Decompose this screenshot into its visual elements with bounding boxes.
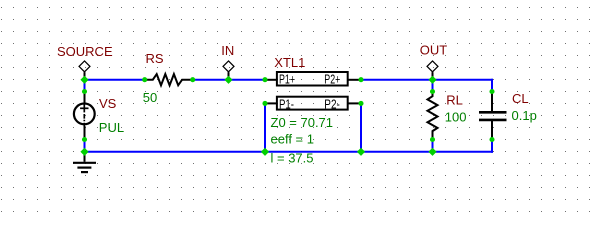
XTL1 upper body box P1+/P2+ xyxy=(277,72,348,86)
node XTL1 P1+ xyxy=(262,77,267,82)
node XTL1 P1- xyxy=(262,101,267,106)
svg-text:PUL: PUL xyxy=(99,120,124,135)
port IN xyxy=(221,43,234,79)
svg-text:l = 37.5: l = 37.5 xyxy=(271,151,314,166)
svg-text:CL: CL xyxy=(512,91,529,106)
resistor RS xyxy=(143,51,193,105)
node RS pin 1 xyxy=(142,77,147,82)
CL bottom plate xyxy=(479,119,507,122)
junction node IN xyxy=(224,76,232,84)
wire XTL1 P1- pin down to bottom rail xyxy=(264,103,266,151)
svg-text:Z0 = 70.71: Z0 = 70.71 xyxy=(271,115,334,130)
svg-text:eeff = 1: eeff = 1 xyxy=(271,131,315,146)
wire right corner down to CL top pin xyxy=(491,79,493,92)
XTL1 P1+ lead xyxy=(265,79,277,81)
svg-text:RL: RL xyxy=(446,93,463,108)
node CL pin 1 xyxy=(489,89,494,94)
junction node OUT xyxy=(428,76,436,84)
node RS pin 2 xyxy=(190,77,195,82)
node XTL1 P2- xyxy=(358,101,363,106)
node RL pin 2 xyxy=(430,137,435,142)
svg-text:VS: VS xyxy=(99,96,117,111)
VS dash-dot line xyxy=(83,114,85,127)
svg-text:P2-: P2- xyxy=(324,97,340,111)
XTL1 lower body box P1-/P2- xyxy=(277,97,348,110)
CL top plate xyxy=(479,111,507,114)
junction node P1- rail xyxy=(261,148,269,156)
wire SOURCE node to RS left pin xyxy=(85,79,146,81)
wire XTL1 P2- pin down to bottom rail xyxy=(360,103,362,151)
XTL1 P1- lead xyxy=(265,102,277,104)
svg-text:100: 100 xyxy=(445,110,467,125)
svg-text:50: 50 xyxy=(143,90,157,105)
node CL pin 2 xyxy=(489,137,494,142)
port SOURCE xyxy=(57,44,113,79)
voltage source VS xyxy=(74,92,124,140)
XTL1 P2+ lead xyxy=(348,79,361,81)
wire bottom ground rail xyxy=(85,151,494,153)
wire RL bottom pin down to bottom rail xyxy=(432,140,434,152)
node XTL1 P2+ xyxy=(358,77,363,82)
svg-text:RS: RS xyxy=(146,51,164,66)
svg-text:OUT: OUT xyxy=(420,42,448,57)
resistor RL xyxy=(428,92,467,140)
junction node VS-ground xyxy=(80,148,88,156)
svg-text:P2+: P2+ xyxy=(324,72,340,86)
node VS plus pin xyxy=(82,89,87,94)
wire XTL1 P2+ pin through OUT node to top-right corner xyxy=(361,79,493,81)
svg-text:P1+: P1+ xyxy=(279,72,295,86)
ground xyxy=(73,152,96,172)
node RL pin 1 xyxy=(430,89,435,94)
junction node SOURCE xyxy=(80,76,88,84)
svg-text:SOURCE: SOURCE xyxy=(57,44,113,59)
capacitor CL xyxy=(479,91,537,139)
svg-text:0.1p: 0.1p xyxy=(512,108,537,123)
svg-text:IN: IN xyxy=(221,43,234,58)
port OUT xyxy=(420,42,448,79)
svg-text:P1-: P1- xyxy=(279,97,294,111)
transmission line XTL1 xyxy=(265,55,361,166)
svg-text:XTL1: XTL1 xyxy=(274,55,305,70)
wire CL bottom pin down to bottom rail corner xyxy=(491,140,493,153)
wire VS bottom pin down to ground junction xyxy=(84,140,86,152)
wire RS right pin through IN node to XTL1 P1+ pin xyxy=(193,79,265,81)
node VS minus pin xyxy=(82,137,87,142)
junction node RL rail xyxy=(428,148,436,156)
wire OUT node down to RL top pin xyxy=(432,80,434,92)
VS plus sign xyxy=(80,107,88,109)
XTL1 P2- lead xyxy=(348,102,361,104)
wire SOURCE node down to VS top pin xyxy=(84,80,86,92)
junction node P2- rail xyxy=(357,148,365,156)
